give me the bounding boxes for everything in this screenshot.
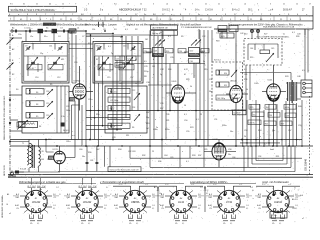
link wires between tuner boxes: [69, 44, 93, 49]
svg-text:R7: R7: [135, 83, 137, 85]
svg-text:C41: C41: [216, 33, 219, 35]
svg-text:1M: 1M: [146, 128, 149, 130]
V5 internal hatch: [215, 148, 224, 154]
speaker terminal strip: [301, 80, 312, 97]
right top labels: [285, 70, 305, 78]
svg-text:C14: C14: [96, 46, 99, 48]
svg-text:C46: C46: [244, 74, 247, 76]
long bus y146 chassis: [10, 145, 313, 147]
antenna terminal: [11, 30, 13, 32]
svg-text:R34: R34: [118, 149, 121, 151]
svg-text:2: 2: [91, 217, 92, 219]
D1 trimmer arrow a: [231, 70, 237, 77]
mains plug terminal: [8, 171, 16, 177]
D2 internal labels: [250, 48, 274, 59]
socket B5 top pin dots: [223, 193, 234, 196]
mid top connector wire 3: [86, 36, 122, 38]
svg-text:NETZ 220V: NETZ 220V: [4, 165, 6, 176]
socket B5 top pin wires: [207, 184, 251, 194]
svg-text:WELLENSCHALTER IN STELLUNG UK: WELLENSCHALTER IN STELLUNG UKW GEZ.: [3, 95, 6, 140]
middle value labels near V2: [160, 69, 188, 110]
svg-text:C52 8u: C52 8u: [249, 123, 255, 125]
svg-text:0,1: 0,1: [279, 223, 281, 225]
svg-text:R24: R24: [258, 130, 261, 132]
svg-text:2n: 2n: [203, 61, 205, 63]
mid bus junction dots: [90, 110, 197, 131]
socket B2 diagonal stub wires: [75, 191, 99, 213]
svg-text:c: c: [240, 19, 241, 21]
svg-text:SKALENBELEUCHTUNG 2x7V 0,3A: SKALENBELEUCHTUNG 2x7V 0,3A: [263, 26, 295, 29]
svg-text:R6: R6: [132, 127, 134, 129]
left wires to border: [10, 95, 22, 131]
svg-text:S21: S21: [190, 51, 193, 53]
svg-text:C15x: C15x: [131, 49, 135, 51]
svg-text:A2: A2: [12, 48, 14, 51]
svg-text:4,7: 4,7: [264, 144, 267, 146]
labels right of socket 6: [292, 188, 299, 211]
svg-text:x: x: [182, 151, 183, 153]
svg-text:#4: #4: [6, 204, 8, 206]
svg-text:b: b: [153, 59, 154, 61]
svg-text:x7: x7: [302, 218, 304, 220]
svg-text:0,5: 0,5: [244, 69, 247, 71]
svg-text:C12: C12: [57, 77, 60, 79]
svg-text:C10: C10: [35, 77, 38, 79]
svg-text:S2: S2: [88, 43, 90, 45]
svg-text:1,5k: 1,5k: [61, 116, 65, 118]
top right bus label row: [216, 33, 300, 36]
svg-text:ABCDEFGHIJKLM: ABCDEFGHIJKLM: [119, 8, 141, 12]
svg-text:C A 5 A: C A 5 A: [205, 9, 213, 12]
svg-text:C22: C22: [132, 90, 135, 92]
svg-text:C63: C63: [132, 151, 135, 153]
svg-text:50: 50: [184, 105, 186, 107]
svg-text:0,1: 0,1: [53, 208, 55, 210]
svg-text:R33: R33: [192, 155, 195, 157]
inter-socket chain wire B: [204, 186, 208, 212]
svg-text:S27: S27: [264, 34, 267, 36]
svg-text:R16: R16: [168, 69, 171, 71]
svg-text:C35: C35: [170, 57, 173, 59]
output transformer windings: [288, 80, 297, 103]
svg-text:12: 12: [179, 3, 181, 5]
bus junction dots: [28, 139, 290, 147]
V5 wires: [204, 140, 236, 168]
svg-text:R31: R31: [276, 156, 279, 158]
svg-text:R26: R26: [296, 36, 299, 38]
mid horizontal bus y110: [86, 110, 246, 112]
svg-text:100p: 100p: [66, 110, 70, 112]
svg-text:R19: R19: [146, 123, 149, 125]
svg-text:E2: E2: [12, 74, 14, 76]
coil can1 internal verticals: [57, 86, 65, 133]
socket B6 bottom terminals: [272, 212, 285, 225]
svg-text:47k: 47k: [272, 223, 275, 225]
inter-socket extra labels: [56, 186, 253, 192]
trimmer T2: [58, 46, 63, 51]
antenna coil L2 (dark): [52, 29, 58, 33]
svg-text:4n7: 4n7: [116, 65, 119, 67]
svg-text:R27: R27: [281, 124, 284, 126]
mains transformer primary winding inner: [27, 146, 29, 165]
antenna coil L1 (dark): [38, 29, 44, 33]
svg-text:T1: T1: [22, 143, 24, 145]
right extra labels: [244, 130, 291, 138]
tuner box2 labels: [96, 46, 137, 80]
svg-text:C65: C65: [170, 157, 173, 159]
D2 internal wires: [248, 44, 278, 60]
svg-text:OSZILLOGRAPH I ANSCHLUSS BEI A: OSZILLOGRAPH I ANSCHLUSS BEI ABGL.: [256, 36, 290, 39]
svg-text:C7: C7: [82, 36, 84, 38]
svg-text:C58: C58: [258, 156, 261, 158]
tuner box2 lower component boxes: [98, 65, 134, 71]
tuner box1 internal wires: [24, 43, 67, 81]
socket B2 top pin wires: [79, 178, 98, 195]
svg-text:S24: S24: [224, 73, 227, 75]
socket B2 bottom terminals: [81, 212, 94, 225]
mid value text column: [144, 61, 155, 84]
svg-text:C1 20p: C1 20p: [24, 28, 31, 30]
svg-text:0,1: 0,1: [104, 208, 106, 210]
tuning capacitor CV4: [123, 57, 133, 69]
header numbers row 2: [10, 19, 302, 21]
svg-text:R32: R32: [142, 155, 145, 157]
lower mid labels: [132, 151, 195, 157]
svg-text:+.C: +.C: [145, 184, 149, 186]
svg-text:GB 25846: GB 25846: [304, 158, 308, 171]
socket B1 diagonal stub wires: [24, 191, 48, 213]
svg-text:0,1: 0,1: [168, 36, 171, 38]
svg-text:47k: 47k: [115, 208, 118, 210]
svg-text:UY41: UY41: [226, 200, 233, 204]
svg-text:5p: 5p: [160, 74, 162, 76]
coil can 2 (osc coils): [105, 86, 147, 133]
svg-text:2: 2: [31, 217, 32, 219]
tube socket B5 UY41: [218, 190, 240, 212]
antenna external arrow 2: [7, 60, 15, 70]
svg-text:UY41: UY41: [53, 149, 59, 151]
svg-text:50 B A F: 50 B A F: [283, 9, 293, 12]
D2 coil rect: [260, 50, 270, 54]
svg-text:C4: C4: [58, 36, 60, 38]
svg-text:0,1: 0,1: [152, 208, 154, 210]
svg-text:Gemessen mit Röhrenvoltm. 1000: Gemessen mit Röhrenvoltm. 1000 O/V: [110, 168, 140, 171]
header table ticks: [14, 16, 300, 20]
svg-text:495: 495: [61, 59, 64, 61]
svg-text:LAUTSTARKE 1M: LAUTSTARKE 1M: [152, 27, 168, 30]
tube V2 UF41 IF amp: [171, 85, 184, 103]
osc coil row 3: [108, 106, 130, 111]
svg-text:220n: 220n: [272, 215, 276, 217]
svg-text:Bedienungsknöpfe u. Lampen: Bedienungsknöpfe u. Lampen: [85, 24, 117, 27]
svg-text:A.M.: A.M.: [14, 204, 19, 207]
socket B2 top pin dots: [81, 193, 92, 196]
socket B3 side wires and labels: [112, 193, 158, 210]
svg-text:2x: 2x: [283, 34, 285, 36]
svg-text:R22: R22: [250, 107, 253, 109]
voltage selector blob: [15, 171, 24, 174]
svg-text:c: c: [90, 19, 91, 21]
svg-text:B 4 u 2: B 4 u 2: [232, 9, 240, 12]
svg-text:1M: 1M: [145, 39, 148, 41]
svg-text:C40 130p: C40 130p: [217, 98, 225, 100]
svg-text:R29: R29: [204, 149, 207, 151]
svg-text:+2.5: +2.5: [152, 197, 155, 199]
socket B4 bottom terminals: [175, 212, 188, 225]
svg-text:S4 x: S4 x: [49, 68, 53, 70]
socket B1 top pin dots: [30, 193, 41, 196]
svg-text:25: 25: [152, 151, 154, 153]
heater labels: [79, 149, 99, 162]
svg-text:21: 21: [283, 3, 285, 5]
svg-text:21: 21: [36, 3, 38, 5]
socket B3 top pin wires: [113, 184, 157, 194]
svg-text:C49: C49: [166, 114, 169, 116]
svg-text:O A S 2: O A S 2: [162, 9, 171, 12]
bus y72 right: [240, 72, 291, 74]
svg-text:C50: C50: [184, 120, 187, 122]
coil can2 trimmer arrow 2: [134, 114, 140, 121]
header rule line 2: [8, 20, 313, 22]
volume control box stack: [151, 25, 178, 35]
D2 bottom labels: [244, 69, 247, 81]
header right edge vertical: [312, 6, 314, 29]
svg-text:47k: 47k: [81, 223, 84, 225]
antenna input wire: [13, 30, 86, 32]
svg-text:1k: 1k: [246, 89, 248, 91]
cluster A side label boxes: [143, 49, 173, 54]
svg-text:0,1: 0,1: [295, 208, 297, 210]
svg-text:21: 21: [218, 3, 220, 5]
svg-text:50n: 50n: [90, 189, 93, 191]
svg-text:C56: C56: [286, 116, 289, 118]
left margin rotated text: [3, 95, 6, 176]
svg-text:2: 2: [233, 217, 234, 219]
mid horizontal bus y117: [86, 117, 130, 119]
svg-text:7 32: 7 32: [142, 10, 147, 12]
svg-text:C15: C15: [107, 77, 110, 79]
wire top right bus: [214, 28, 313, 30]
svg-text:S7: S7: [96, 59, 98, 61]
svg-text:50n: 50n: [39, 189, 42, 191]
trimmer T1: [26, 46, 31, 51]
IF can D1 (dashed): [212, 62, 243, 110]
capacitor C3: [63, 30, 64, 33]
svg-text:C20: C20: [66, 106, 69, 108]
svg-text:25: 25: [200, 114, 202, 116]
trimmer T4: [131, 46, 136, 51]
svg-text:C17 25: C17 25: [99, 68, 105, 70]
svg-text:UBC41: UBC41: [230, 81, 238, 83]
svg-text:S28: S28: [285, 76, 288, 78]
V6 grid hatch: [48, 156, 54, 160]
svg-text:44: 44: [49, 3, 51, 5]
D1 coil box a: [216, 70, 229, 75]
svg-text:C26: C26: [119, 83, 122, 85]
tuner box1 lower component boxes: [27, 65, 63, 71]
svg-text:C60: C60: [79, 149, 82, 151]
svg-text:C.C: C.C: [213, 184, 217, 186]
svg-text:C39: C39: [160, 103, 163, 105]
svg-text:C.C: C.C: [205, 190, 209, 192]
svg-text:C55: C55: [186, 131, 189, 133]
svg-text:12: 12: [140, 3, 142, 5]
svg-text:0,1: 0,1: [182, 223, 184, 225]
cluster connect wires: [146, 29, 204, 85]
svg-text:2: 2: [185, 217, 186, 219]
socket B4 top pin wires: [159, 184, 203, 194]
osc coil row 1: [108, 88, 130, 93]
svg-text:C48: C48: [297, 76, 300, 78]
svg-text:100: 100: [96, 149, 99, 151]
long bus y139: [10, 139, 302, 141]
lower mid verticals: [130, 146, 204, 167]
svg-text:C38: C38: [160, 69, 163, 71]
staircase loop wires bottom right: [244, 146, 295, 172]
osc coil row 2: [108, 97, 130, 102]
svg-text:x: x: [162, 86, 163, 88]
notes row dark word blob: [43, 23, 56, 26]
mains transformer secondary winding: [39, 147, 41, 166]
socket B3 bottom terminals: [129, 212, 142, 225]
trimmer arrow L5: [47, 89, 53, 95]
svg-text:x4: x4: [244, 3, 246, 5]
svg-text:0,22: 0,22: [184, 69, 188, 71]
right section vertical wires: [243, 100, 302, 146]
svg-text:C20: C20: [46, 115, 49, 117]
svg-text:P.T. KLANGFARBENREGLER 50k: P.T. KLANGFARBENREGLER 50k: [181, 26, 212, 29]
svg-text:R23: R23: [190, 127, 193, 129]
socket B6 top pin wires: [256, 184, 300, 194]
osc coil row 4: [108, 114, 130, 119]
tuner box 2 inner: [95, 43, 141, 81]
svg-text:UCH42: UCH42: [83, 200, 92, 204]
svg-text:G.E. C.4: G.E. C.4: [37, 185, 46, 188]
bus y158: [130, 157, 302, 159]
svg-text:A1-D1: A1-D1: [292, 198, 299, 201]
svg-text:50n: 50n: [82, 156, 85, 158]
cluster B lower box: [189, 59, 200, 64]
right value boxes grid: [248, 105, 296, 126]
bus y167: [150, 166, 248, 168]
svg-text:C12 40: C12 40: [28, 68, 34, 70]
tube V3 wires: [226, 43, 248, 146]
mid vertical wire bundle: [86, 31, 138, 146]
mid bus under clusters: [122, 63, 205, 65]
tube V1 UCH42 mixer: [73, 84, 86, 99]
D1 value box: [216, 95, 231, 100]
svg-text:+.C: +.C: [288, 184, 292, 186]
svg-text:UCH42: UCH42: [32, 200, 41, 204]
svg-text:x: x: [155, 119, 156, 121]
mid top connector wire: [86, 34, 150, 36]
svg-text:7: 7: [101, 3, 102, 5]
svg-text:C57: C57: [288, 130, 291, 132]
svg-text:C37: C37: [209, 79, 212, 81]
svg-text:C47b: C47b: [254, 83, 259, 85]
dial lamp 2: [257, 30, 260, 33]
svg-text:+.C: +.C: [239, 184, 243, 186]
svg-text:47k: 47k: [67, 208, 70, 210]
svg-text:0,1: 0,1: [88, 223, 90, 225]
svg-text:50n: 50n: [230, 131, 233, 133]
svg-text:x Trennstellen mit angelötetem: x Trennstellen mit angelötetem Draht: [99, 180, 144, 184]
svg-text:UBF80: UBF80: [131, 200, 140, 204]
svg-text:C11: C11: [49, 46, 52, 48]
svg-text:Leerstellung mit Röhre 1000/V~: Leerstellung mit Röhre 1000/V~: [190, 180, 228, 184]
mid bus labels: [146, 112, 202, 130]
svg-text:7: 7: [231, 3, 232, 5]
svg-text:Wellenbereiche: L 150kHz M 51: Wellenbereiche: L 150kHz M 515kHz K 6-18…: [10, 24, 88, 27]
svg-text:21: 21: [205, 3, 207, 5]
bottom italic caption row: [19, 180, 289, 184]
top right labels under bus: [216, 32, 299, 43]
svg-text:R30: R30: [88, 152, 91, 154]
bottom border line 1: [8, 174, 313, 176]
heater capacitors: [86, 162, 99, 163]
right border dashed wire: [309, 96, 311, 176]
trimmer T3: [97, 46, 102, 51]
svg-text:x1: x1: [9, 213, 11, 215]
V5 side labels: [204, 149, 231, 156]
D1 trimmer arrow b: [231, 94, 237, 101]
coil L6 box: [26, 101, 44, 107]
coil L5 box: [26, 89, 44, 95]
svg-text:mögl. mit Kondensator: mögl. mit Kondensator: [262, 180, 289, 184]
svg-text:C18: C18: [46, 91, 49, 93]
note box gemessen: [108, 167, 141, 172]
svg-text:UKW EINST. 88-100MHz: UKW EINST. 88-100MHz: [2, 195, 4, 218]
svg-text:C44: C44: [250, 48, 253, 50]
svg-text:R15: R15: [204, 69, 207, 71]
tube socket B4 UL41: [170, 190, 192, 212]
V6 wires: [46, 140, 75, 172]
top scale tick labels row: [10, 3, 311, 5]
tuner box 2 (oscillator unit) outer: [93, 42, 143, 84]
svg-text:G.E. C.4: G.E. C.4: [88, 185, 97, 188]
long bus y141 left stub: [10, 141, 29, 143]
capacitor C2: [29, 30, 30, 33]
svg-text:1M: 1M: [152, 66, 155, 68]
mains transformer core: [33, 145, 35, 168]
svg-text:R36: R36: [158, 161, 161, 163]
svg-text:x: x: [140, 159, 141, 161]
svg-text:S23 5,4: S23 5,4: [214, 60, 221, 62]
drop wires from antenna row: [26, 31, 76, 83]
coil can1 labels: [39, 91, 49, 128]
svg-text:C62: C62: [128, 151, 131, 153]
svg-text:C34: C34: [179, 51, 182, 53]
notes row tick marks: [99, 22, 104, 27]
svg-text:x: x: [260, 136, 261, 138]
svg-text:2: 2: [224, 217, 225, 219]
svg-text:12k: 12k: [92, 29, 95, 31]
socket B3 diagonal stub wires: [123, 191, 147, 213]
svg-text:x x: x x: [72, 135, 74, 137]
tube V4 wires: [262, 65, 286, 146]
tube socket B2 UCH42: [76, 190, 98, 212]
scattered wire value labels: [12, 32, 303, 163]
heater bus y171 long: [58, 171, 295, 173]
socket B6 diagonal stub wires: [266, 191, 290, 213]
power wiring: [10, 140, 60, 173]
svg-text:C45: C45: [271, 48, 274, 50]
antenna external arrow 1: [7, 34, 15, 45]
right grid junction dots: [242, 139, 303, 147]
tube V1 pin wires: [69, 66, 93, 111]
inter-socket chain wire A: [157, 186, 162, 212]
svg-text:UL41: UL41: [178, 200, 185, 204]
